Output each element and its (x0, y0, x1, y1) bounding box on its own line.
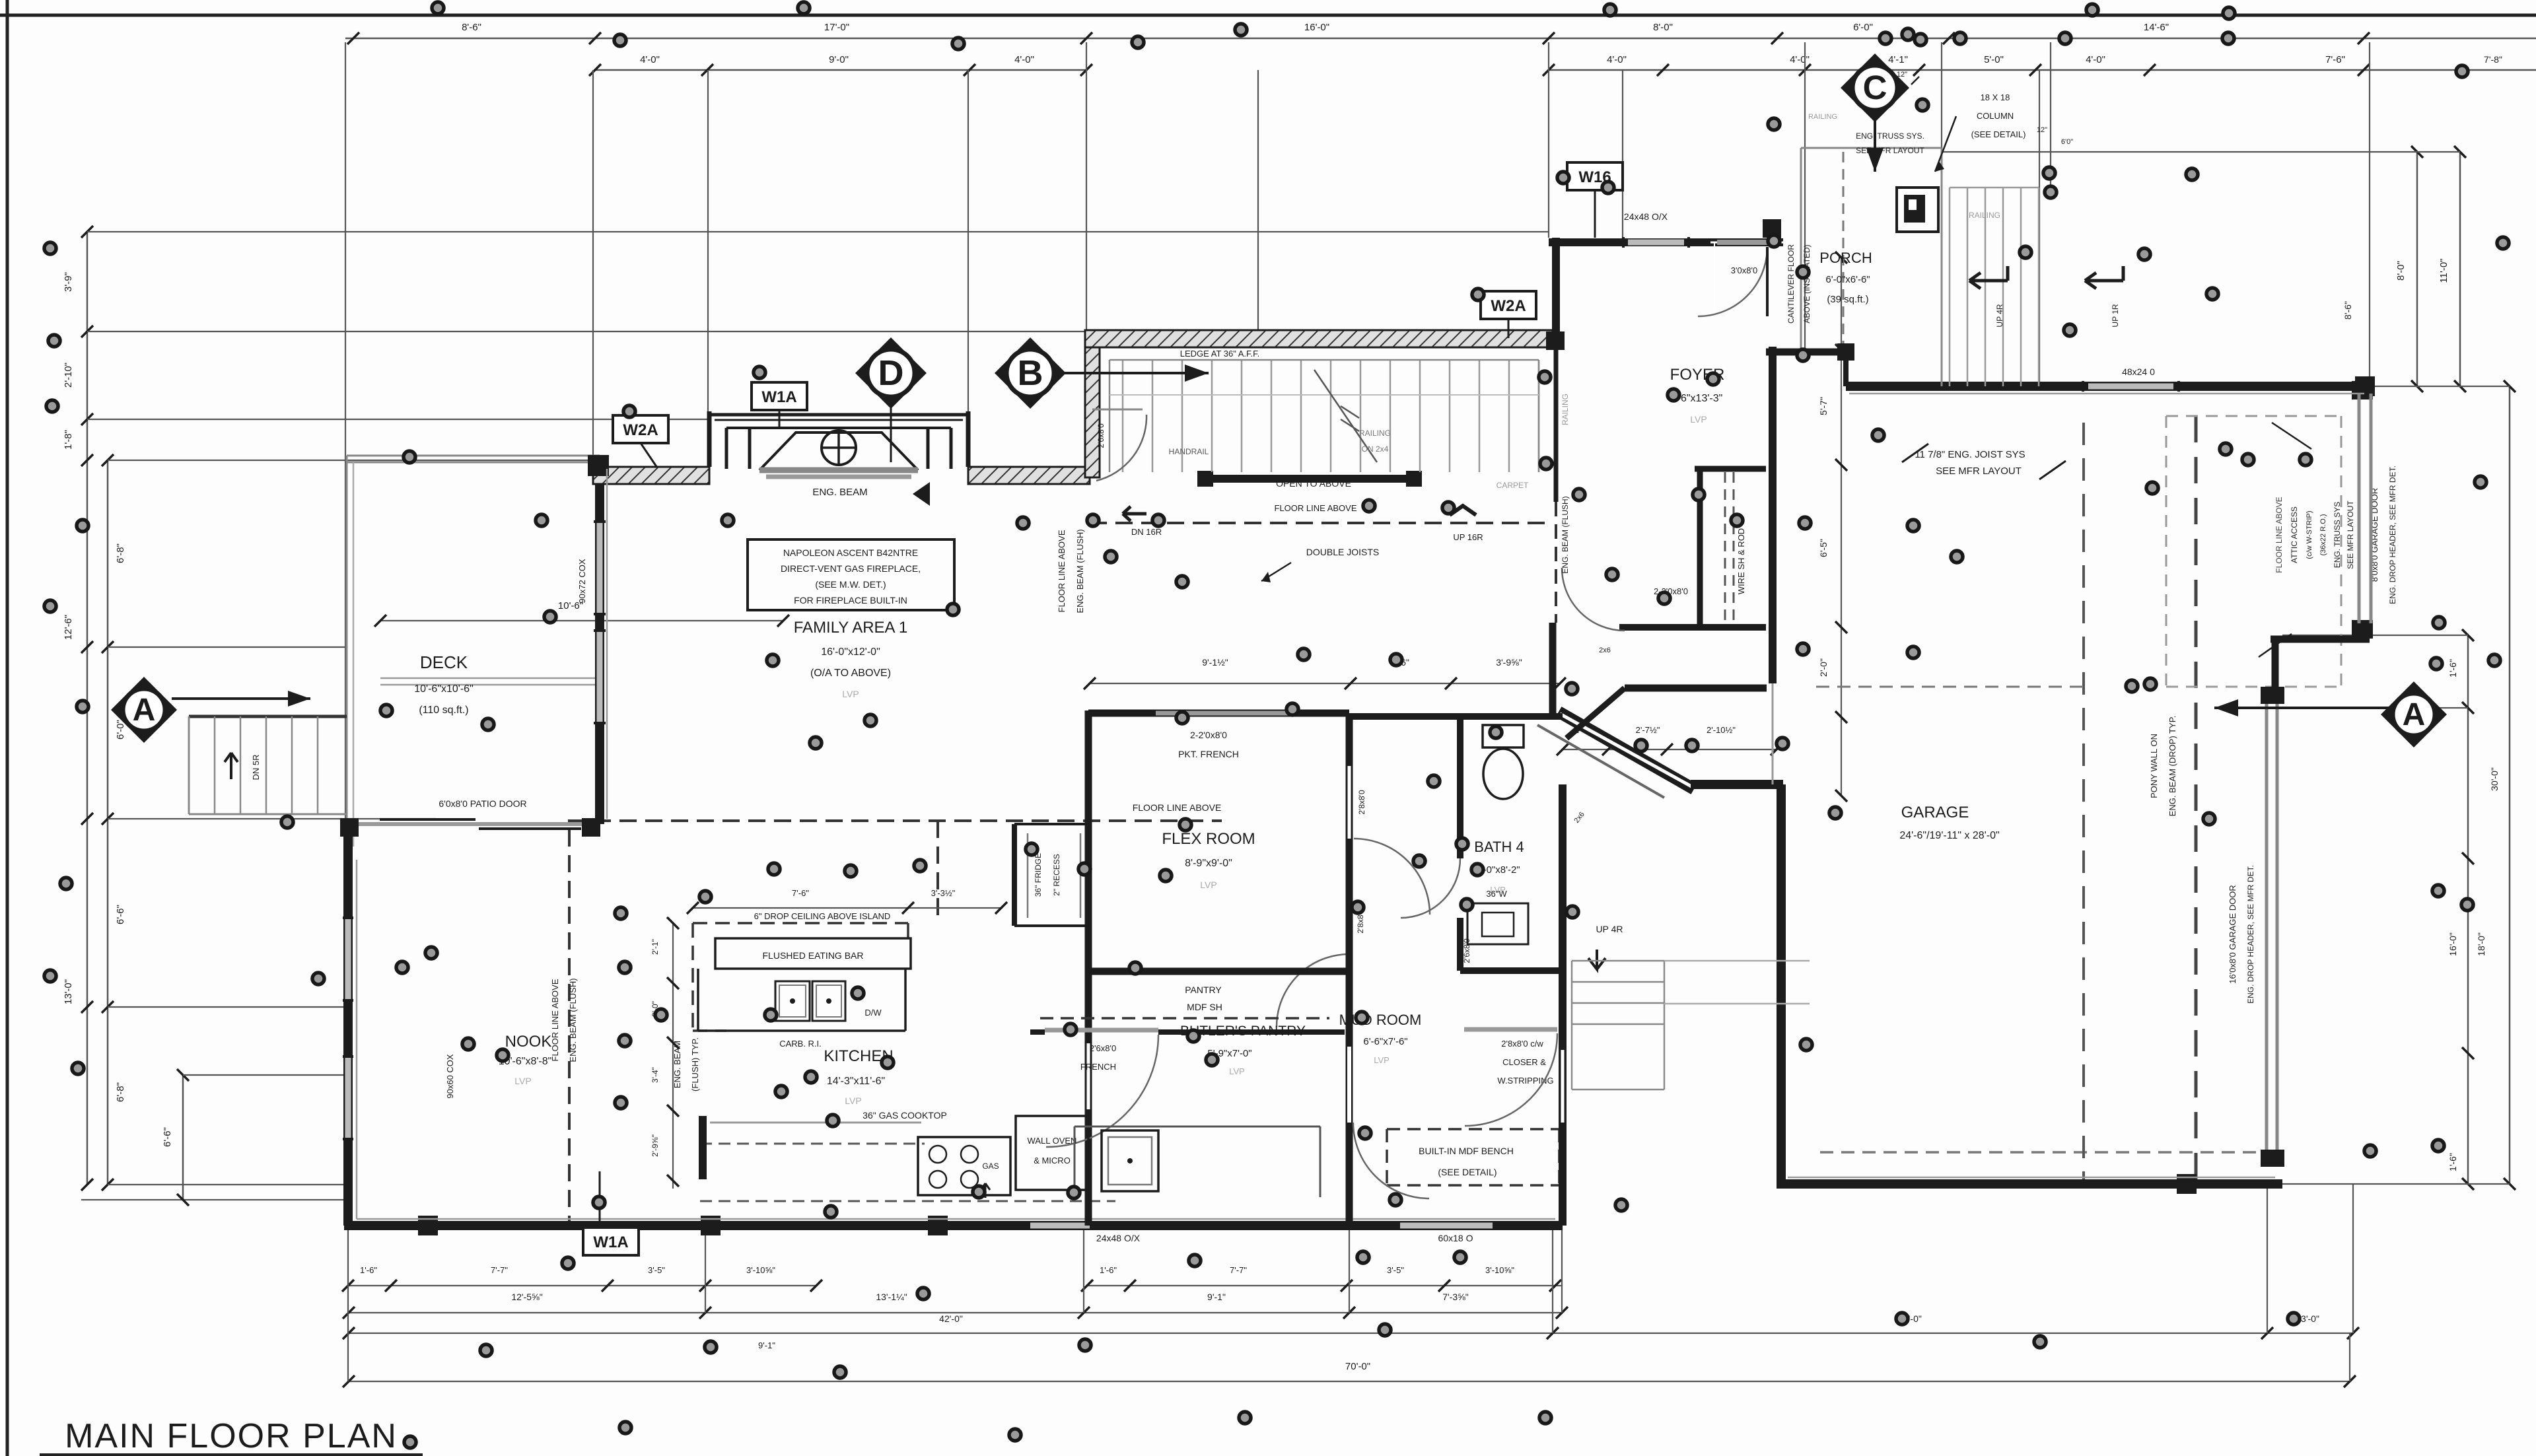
svg-text:(39 sq.ft.): (39 sq.ft.) (1827, 294, 1868, 305)
svg-text:WALL OVEN: WALL OVEN (1028, 1136, 1077, 1146)
svg-text:3'-5": 3'-5" (1387, 1265, 1404, 1275)
svg-text:CARB. R.I.: CARB. R.I. (779, 1039, 822, 1049)
svg-text:A: A (133, 693, 156, 728)
svg-text:24x48 O/X: 24x48 O/X (1096, 1233, 1141, 1243)
svg-text:6'-5": 6'-5" (1818, 539, 1829, 557)
svg-text:LVP: LVP (1200, 880, 1216, 890)
svg-text:FLOOR LINE ABOVE: FLOOR LINE ABOVE (2274, 497, 2284, 572)
svg-text:12": 12" (2037, 126, 2047, 134)
svg-text:UP 4R: UP 4R (1995, 304, 2004, 327)
svg-text:LVP: LVP (514, 1076, 531, 1086)
svg-text:PKT. FRENCH: PKT. FRENCH (1178, 749, 1239, 759)
svg-text:LVP: LVP (845, 1095, 861, 1106)
svg-text:11'-0": 11'-0" (2438, 258, 2449, 283)
svg-text:DIRECT-VENT GAS FIREPLACE,: DIRECT-VENT GAS FIREPLACE, (781, 563, 921, 574)
svg-text:W1A: W1A (761, 388, 796, 406)
svg-text:ENG. BEAM (FLUSH): ENG. BEAM (FLUSH) (1561, 496, 1570, 573)
svg-text:FLEX ROOM: FLEX ROOM (1162, 830, 1255, 848)
svg-text:UP 1R: UP 1R (2111, 304, 2120, 327)
svg-text:2'-10½": 2'-10½" (1707, 725, 1736, 735)
svg-text:ENG. TRUSS SYS: ENG. TRUSS SYS (2333, 502, 2342, 568)
svg-text:LVP: LVP (1690, 414, 1707, 425)
svg-text:7'-3⅝": 7'-3⅝" (1442, 1292, 1469, 1302)
svg-text:16'-0": 16'-0" (1304, 22, 1329, 33)
svg-text:FLUSHED EATING BAR: FLUSHED EATING BAR (763, 950, 864, 961)
svg-text:4'-0": 4'-0" (1014, 54, 1034, 65)
svg-text:DOUBLE JOISTS: DOUBLE JOISTS (1306, 547, 1379, 557)
svg-text:MDF SH: MDF SH (1187, 1002, 1222, 1012)
svg-text:2'6x8'0: 2'6x8'0 (1090, 1043, 1116, 1053)
svg-text:5'-0": 5'-0" (1984, 54, 2004, 65)
svg-text:60x18 O: 60x18 O (1438, 1233, 1473, 1243)
svg-text:2'-0": 2'-0" (1818, 658, 1829, 677)
svg-text:C: C (1863, 69, 1887, 106)
svg-text:LVP: LVP (842, 689, 859, 699)
svg-text:70'-0": 70'-0" (1345, 1361, 1370, 1372)
svg-text:UP 4R: UP 4R (1596, 924, 1623, 934)
svg-text:D/W: D/W (864, 1008, 882, 1018)
svg-text:2'-7½": 2'-7½" (1636, 725, 1660, 735)
svg-text:7'-7": 7'-7" (491, 1265, 508, 1275)
svg-text:ENG. BEAM (FLUSH): ENG. BEAM (FLUSH) (568, 978, 578, 1062)
svg-text:2'6x8'0: 2'6x8'0 (1096, 423, 1106, 448)
svg-text:8'-6": 8'-6" (2342, 301, 2353, 320)
svg-text:PANTRY: PANTRY (1185, 985, 1222, 995)
svg-text:6'-8": 6'-8" (115, 543, 126, 563)
svg-text:1'-6": 1'-6" (360, 1265, 377, 1275)
svg-text:ENG. BEAM: ENG. BEAM (812, 487, 867, 498)
svg-text:(SEE M.W. DET.): (SEE M.W. DET.) (815, 579, 886, 590)
svg-text:WIRE SH & ROD: WIRE SH & ROD (1736, 528, 1746, 594)
svg-text:1'-8": 1'-8" (63, 430, 74, 450)
svg-text:UP 16R: UP 16R (1453, 532, 1483, 542)
svg-text:10'-6"x10'-6": 10'-6"x10'-6" (414, 683, 474, 695)
svg-text:PORCH: PORCH (1819, 250, 1872, 266)
svg-text:3'-4": 3'-4" (651, 1067, 660, 1083)
svg-text:36"W: 36"W (1486, 889, 1507, 899)
svg-text:RAILING: RAILING (1808, 113, 1837, 121)
svg-text:ENG. BEAM (DROP) TYP.: ENG. BEAM (DROP) TYP. (2167, 716, 2177, 817)
svg-text:6'-0": 6'-0" (1853, 22, 1873, 33)
svg-text:6'0x8'0 PATIO DOOR: 6'0x8'0 PATIO DOOR (439, 798, 526, 809)
svg-text:18'-0": 18'-0" (2476, 932, 2486, 956)
svg-text:(c/w W-STRIP): (c/w W-STRIP) (2306, 510, 2313, 559)
svg-text:FLOOR LINE ABOVE: FLOOR LINE ABOVE (1057, 530, 1067, 612)
svg-text:NAPOLEON ASCENT B42NTRE: NAPOLEON ASCENT B42NTRE (783, 547, 918, 558)
svg-text:RAILING: RAILING (1969, 211, 2000, 220)
svg-text:13'-1¼": 13'-1¼" (876, 1292, 907, 1302)
svg-text:FOR FIREPLACE BUILT-IN: FOR FIREPLACE BUILT-IN (794, 595, 907, 606)
svg-text:FLOOR LINE ABOVE: FLOOR LINE ABOVE (550, 979, 560, 1061)
svg-text:SEE MFR LAYOUT: SEE MFR LAYOUT (1936, 466, 2022, 477)
svg-text:14'-3"x11'-6": 14'-3"x11'-6" (827, 1076, 885, 1087)
svg-text:OPEN TO ABOVE: OPEN TO ABOVE (1276, 478, 1351, 489)
svg-text:42'-0": 42'-0" (939, 1313, 963, 1324)
svg-text:9'-1": 9'-1" (1207, 1292, 1226, 1302)
svg-text:3'-9": 3'-9" (63, 272, 74, 292)
svg-text:LVP: LVP (1374, 1055, 1390, 1065)
svg-text:6'-6"x7'-6": 6'-6"x7'-6" (1363, 1036, 1407, 1047)
svg-text:16'0x8'0 GARAGE DOOR: 16'0x8'0 GARAGE DOOR (2228, 885, 2237, 983)
svg-text:16'-0": 16'-0" (2448, 932, 2458, 956)
svg-text:ATTIC ACCESS: ATTIC ACCESS (2290, 506, 2299, 563)
svg-text:1'-6": 1'-6" (1100, 1265, 1117, 1275)
svg-text:6" DROP CEILING ABOVE ISLAND: 6" DROP CEILING ABOVE ISLAND (754, 911, 891, 921)
svg-text:HANDRAIL: HANDRAIL (1169, 447, 1209, 456)
svg-text:FLOOR LINE ABOVE: FLOOR LINE ABOVE (1133, 802, 1222, 813)
svg-text:ENG. DROP HEADER, SEE MFR DET.: ENG. DROP HEADER, SEE MFR DET. (2246, 865, 2255, 1004)
svg-text:12'-6": 12'-6" (63, 615, 74, 640)
svg-text:13'-0": 13'-0" (63, 979, 74, 1004)
svg-text:ABOVE (INSULATED): ABOVE (INSULATED) (1802, 244, 1812, 323)
svg-text:8'-0": 8'-0" (1653, 22, 1673, 33)
svg-text:ON 2x4: ON 2x4 (1362, 444, 1389, 454)
svg-text:FAMILY AREA 1: FAMILY AREA 1 (794, 619, 908, 637)
svg-text:CARPET: CARPET (1497, 481, 1529, 490)
svg-text:24'-6"/19'-11" x 28'-0": 24'-6"/19'-11" x 28'-0" (1899, 830, 1999, 841)
svg-text:3'-10⅝": 3'-10⅝" (1485, 1265, 1514, 1275)
svg-text:& MICRO: & MICRO (1034, 1156, 1071, 1165)
svg-text:90x60 COX: 90x60 COX (445, 1054, 455, 1099)
svg-text:3'-0": 3'-0" (2301, 1313, 2319, 1324)
svg-text:2'8x8'0 c/w: 2'8x8'0 c/w (1501, 1039, 1543, 1049)
svg-text:MUD ROOM: MUD ROOM (1339, 1012, 1422, 1028)
svg-text:7'-6": 7'-6" (2325, 54, 2345, 65)
svg-text:BATH 4: BATH 4 (1474, 839, 1524, 855)
svg-text:ENG. BEAM (FLUSH): ENG. BEAM (FLUSH) (1075, 529, 1085, 613)
svg-text:5'-7": 5'-7" (1818, 397, 1829, 415)
svg-text:W2A: W2A (623, 421, 658, 439)
svg-text:3'-9⅝": 3'-9⅝" (1496, 657, 1522, 668)
svg-text:8'-0": 8'-0" (2395, 261, 2407, 281)
svg-text:2x6: 2x6 (1599, 646, 1611, 654)
svg-text:2-2'0x8'0: 2-2'0x8'0 (1190, 730, 1227, 740)
svg-text:9'-0": 9'-0" (829, 54, 849, 65)
svg-text:CLOSER &: CLOSER & (1502, 1057, 1546, 1067)
svg-text:(36x22 R.O.): (36x22 R.O.) (2319, 514, 2327, 556)
svg-text:4'-1": 4'-1" (1888, 54, 1908, 65)
svg-text:18 X 18: 18 X 18 (1981, 92, 2010, 102)
svg-text:LVP: LVP (1229, 1066, 1245, 1076)
svg-text:W2A: W2A (1491, 297, 1526, 315)
svg-text:2'8x8'0: 2'8x8'0 (1357, 790, 1366, 815)
svg-text:CANTILEVER FLOOR: CANTILEVER FLOOR (1786, 244, 1796, 324)
svg-text:MAIN FLOOR PLAN: MAIN FLOOR PLAN (65, 1417, 398, 1455)
svg-text:COLUMN: COLUMN (1977, 111, 2014, 121)
svg-text:4'-0": 4'-0" (1790, 54, 1810, 65)
svg-text:14'-6": 14'-6" (2144, 22, 2169, 33)
svg-text:NOOK: NOOK (505, 1033, 552, 1051)
svg-text:(110 sq.ft.): (110 sq.ft.) (419, 705, 468, 716)
svg-text:7'-8": 7'-8" (2484, 54, 2502, 65)
svg-text:SEE MFR LAYOUT: SEE MFR LAYOUT (2346, 500, 2355, 569)
svg-text:PONY WALL ON: PONY WALL ON (2149, 734, 2159, 798)
svg-text:11 7/8" ENG. JOIST SYS: 11 7/8" ENG. JOIST SYS (1915, 449, 2025, 460)
svg-text:7'-7": 7'-7" (1230, 1265, 1247, 1275)
svg-text:1'-6": 1'-6" (2448, 1153, 2458, 1171)
svg-text:6'-0"x6'-6": 6'-0"x6'-6" (1825, 274, 1870, 285)
svg-text:A: A (2403, 697, 2426, 732)
svg-text:6'0": 6'0" (2061, 138, 2073, 146)
svg-text:(SEE DETAIL): (SEE DETAIL) (1438, 1167, 1497, 1177)
svg-text:4'-0": 4'-0" (2086, 54, 2105, 65)
svg-text:DECK: DECK (420, 652, 468, 672)
svg-text:2'-9⅝": 2'-9⅝" (651, 1134, 660, 1157)
svg-text:GAS: GAS (982, 1161, 999, 1171)
svg-text:6'-8": 6'-8" (115, 1082, 126, 1102)
svg-text:9'-1": 9'-1" (758, 1340, 775, 1350)
svg-text:RAILING: RAILING (1561, 394, 1570, 425)
svg-text:B: B (1018, 353, 1043, 393)
svg-text:ENG. DROP HEADER, SEE MFR DET.: ENG. DROP HEADER, SEE MFR DET. (2388, 466, 2397, 604)
svg-text:2" RECESS: 2" RECESS (1052, 854, 1061, 896)
svg-text:4'-0": 4'-0" (640, 54, 660, 65)
svg-text:16'-0"x12'-0": 16'-0"x12'-0" (821, 646, 880, 658)
svg-text:DN 16R: DN 16R (1131, 527, 1162, 537)
svg-text:36" FRIDGE: 36" FRIDGE (1034, 853, 1043, 897)
svg-text:LEDGE AT 36" A.F.F.: LEDGE AT 36" A.F.F. (1180, 349, 1259, 359)
svg-text:FRENCH: FRENCH (1080, 1062, 1116, 1072)
svg-text:GARAGE: GARAGE (1901, 804, 1969, 821)
svg-text:W1A: W1A (593, 1233, 628, 1251)
svg-text:FLOOR LINE ABOVE: FLOOR LINE ABOVE (1275, 503, 1357, 513)
svg-text:D: D (878, 353, 904, 393)
svg-text:DN 5R: DN 5R (251, 754, 261, 780)
svg-text:1'-6": 1'-6" (2448, 659, 2458, 677)
svg-text:9'-1½": 9'-1½" (1202, 657, 1228, 668)
svg-text:4'-0": 4'-0" (1607, 54, 1627, 65)
svg-text:12'-5⅝": 12'-5⅝" (511, 1292, 542, 1302)
svg-text:ENG. TRUSS SYS.: ENG. TRUSS SYS. (1856, 131, 1924, 141)
svg-text:8'-9"x9'-0": 8'-9"x9'-0" (1185, 858, 1232, 869)
svg-text:36" GAS COOKTOP: 36" GAS COOKTOP (863, 1110, 947, 1121)
svg-text:24x48 O/X: 24x48 O/X (1624, 211, 1668, 222)
svg-text:BUILT-IN MDF BENCH: BUILT-IN MDF BENCH (1419, 1146, 1514, 1156)
svg-text:3'-5": 3'-5" (648, 1265, 665, 1275)
svg-text:2'-10": 2'-10" (63, 363, 74, 388)
svg-text:(SEE DETAIL): (SEE DETAIL) (1971, 129, 2026, 139)
svg-text:SEE MFR LAYOUT: SEE MFR LAYOUT (1856, 146, 1924, 155)
svg-text:6'-6": 6'-6" (115, 905, 126, 924)
svg-text:3'-3½": 3'-3½" (931, 888, 956, 898)
svg-text:3'-10⅝": 3'-10⅝" (746, 1265, 775, 1275)
svg-text:RAILING: RAILING (1359, 429, 1391, 438)
svg-text:(FLUSH) TYP.: (FLUSH) TYP. (690, 1037, 700, 1092)
svg-text:7'-6": 7'-6" (792, 888, 809, 898)
svg-text:48x24 0: 48x24 0 (2122, 366, 2155, 377)
svg-text:2'-1": 2'-1" (651, 939, 660, 955)
svg-text:90x72 COX: 90x72 COX (577, 559, 587, 604)
svg-text:(O/A TO ABOVE): (O/A TO ABOVE) (810, 668, 891, 679)
svg-text:8'-6": 8'-6" (462, 22, 481, 33)
svg-text:17'-0": 17'-0" (824, 22, 849, 33)
svg-text:30'-0": 30'-0" (2489, 767, 2500, 791)
svg-text:3'0x8'0: 3'0x8'0 (1731, 265, 1757, 275)
svg-text:6'-6": 6'-6" (162, 1127, 173, 1147)
